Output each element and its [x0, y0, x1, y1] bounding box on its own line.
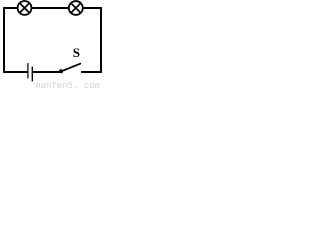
svg-text:manfen5. com: manfen5. com — [35, 81, 100, 89]
lamp L2 — [69, 1, 83, 15]
wire right — [100, 7, 102, 73]
lamp L1 — [18, 1, 32, 15]
switch pivot dot — [59, 69, 63, 73]
svg-text:S: S — [73, 45, 80, 60]
wire battery to switch — [32, 71, 61, 73]
wire top — [3, 7, 102, 9]
battery short plate — [31, 67, 33, 82]
switch lever — [62, 64, 81, 71]
battery long plate — [27, 63, 29, 78]
wire bottom-left to battery — [3, 71, 28, 73]
wire left — [3, 7, 5, 73]
wire switch to bottom-right — [81, 71, 102, 73]
